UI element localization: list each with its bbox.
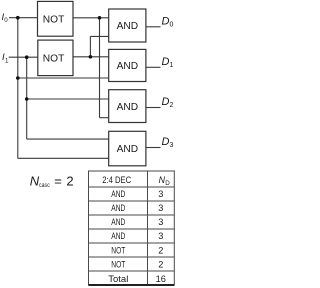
wire I0 vertical drop (17, 18, 19, 159)
table row line 5 (88, 256, 174, 258)
AND gate U4 box (109, 49, 146, 81)
svg-text:NOT: NOT (43, 13, 65, 25)
NOT gate U1 box (38, 1, 74, 36)
svg-text:AND: AND (111, 231, 125, 241)
node junction I0 to NOT1 (16, 16, 20, 20)
node junction NOT2 output (89, 55, 93, 59)
table row line 3 (88, 228, 174, 230)
svg-text:3: 3 (158, 217, 163, 227)
wire I1 vertical drop (26, 57, 28, 139)
svg-text:2: 2 (66, 174, 73, 189)
svg-text:3: 3 (170, 142, 174, 149)
svg-text:=: = (54, 174, 62, 189)
wire I0 branch to AND2 lower input (18, 77, 109, 79)
wire NOT2 output vertical riser (89, 36, 91, 56)
svg-text:3: 3 (158, 203, 163, 213)
table header cell ND (159, 175, 171, 187)
wire I1 input (9, 56, 38, 58)
wire I1 branch to AND3 upper input (27, 98, 109, 100)
table column divider (147, 171, 149, 285)
node junction I1 to NOT2 (25, 55, 29, 59)
wire NOT1 output vertical drop (99, 18, 101, 118)
node junction I1 to AND3 (25, 97, 29, 101)
wire NOT2 output to AND2 upper input (73, 56, 109, 58)
wire NOT1 output to AND1 upper input (73, 17, 109, 19)
wire NOT2 branch to AND1 lower input (90, 35, 108, 37)
svg-text:AND: AND (111, 217, 125, 227)
svg-text:D: D (162, 96, 170, 108)
svg-text:NOT: NOT (111, 259, 125, 269)
AND gate U6 box (109, 131, 146, 166)
svg-text:2:4 DEC: 2:4 DEC (102, 175, 131, 185)
node junction NOT1 output (98, 16, 102, 20)
table header bottom line (88, 186, 174, 188)
table row line 2 (88, 214, 174, 216)
table row line 1 (88, 200, 174, 202)
wire I0 input (9, 17, 38, 19)
svg-text:AND: AND (111, 203, 125, 213)
svg-text:NOT: NOT (43, 53, 65, 65)
AND gate U5 box (109, 90, 146, 123)
svg-text:AND: AND (117, 20, 139, 32)
table outer border (89, 171, 175, 285)
svg-text:0: 0 (170, 22, 174, 29)
svg-text:2: 2 (158, 259, 163, 269)
svg-text:AND: AND (117, 60, 139, 72)
svg-text:D: D (165, 180, 170, 187)
svg-text:1: 1 (5, 57, 9, 64)
svg-text:AND: AND (117, 143, 139, 155)
svg-text:3: 3 (158, 189, 163, 199)
wire I1 branch to AND4 upper input (27, 138, 109, 140)
svg-text:0: 0 (4, 17, 8, 24)
table row line 4 (88, 242, 174, 244)
svg-text:Total: Total (108, 274, 128, 284)
svg-text:2: 2 (158, 245, 163, 255)
svg-text:D: D (162, 16, 170, 28)
svg-text:casc: casc (39, 182, 50, 189)
wire NOT1 branch to AND3 lower input (100, 117, 109, 119)
node junction I0 to AND2 (16, 76, 20, 80)
wire D0 output (146, 26, 161, 28)
svg-text:16: 16 (156, 274, 166, 284)
svg-text:AND: AND (111, 189, 125, 199)
svg-text:NOT: NOT (111, 245, 125, 255)
svg-text:1: 1 (170, 62, 174, 69)
table row line 6 (88, 270, 174, 272)
svg-text:2: 2 (170, 102, 174, 109)
NOT gate U2 box (38, 40, 73, 76)
table bottom thick border (89, 284, 175, 286)
wire D1 output (146, 66, 161, 68)
wire D2 output (146, 107, 161, 109)
svg-text:AND: AND (117, 101, 139, 113)
AND gate U3 box (109, 9, 146, 42)
svg-text:D: D (162, 136, 170, 148)
wire I0 branch to AND4 lower input (18, 157, 109, 159)
wire D3 output (146, 147, 161, 149)
svg-text:3: 3 (158, 231, 163, 241)
svg-text:D: D (162, 56, 170, 68)
